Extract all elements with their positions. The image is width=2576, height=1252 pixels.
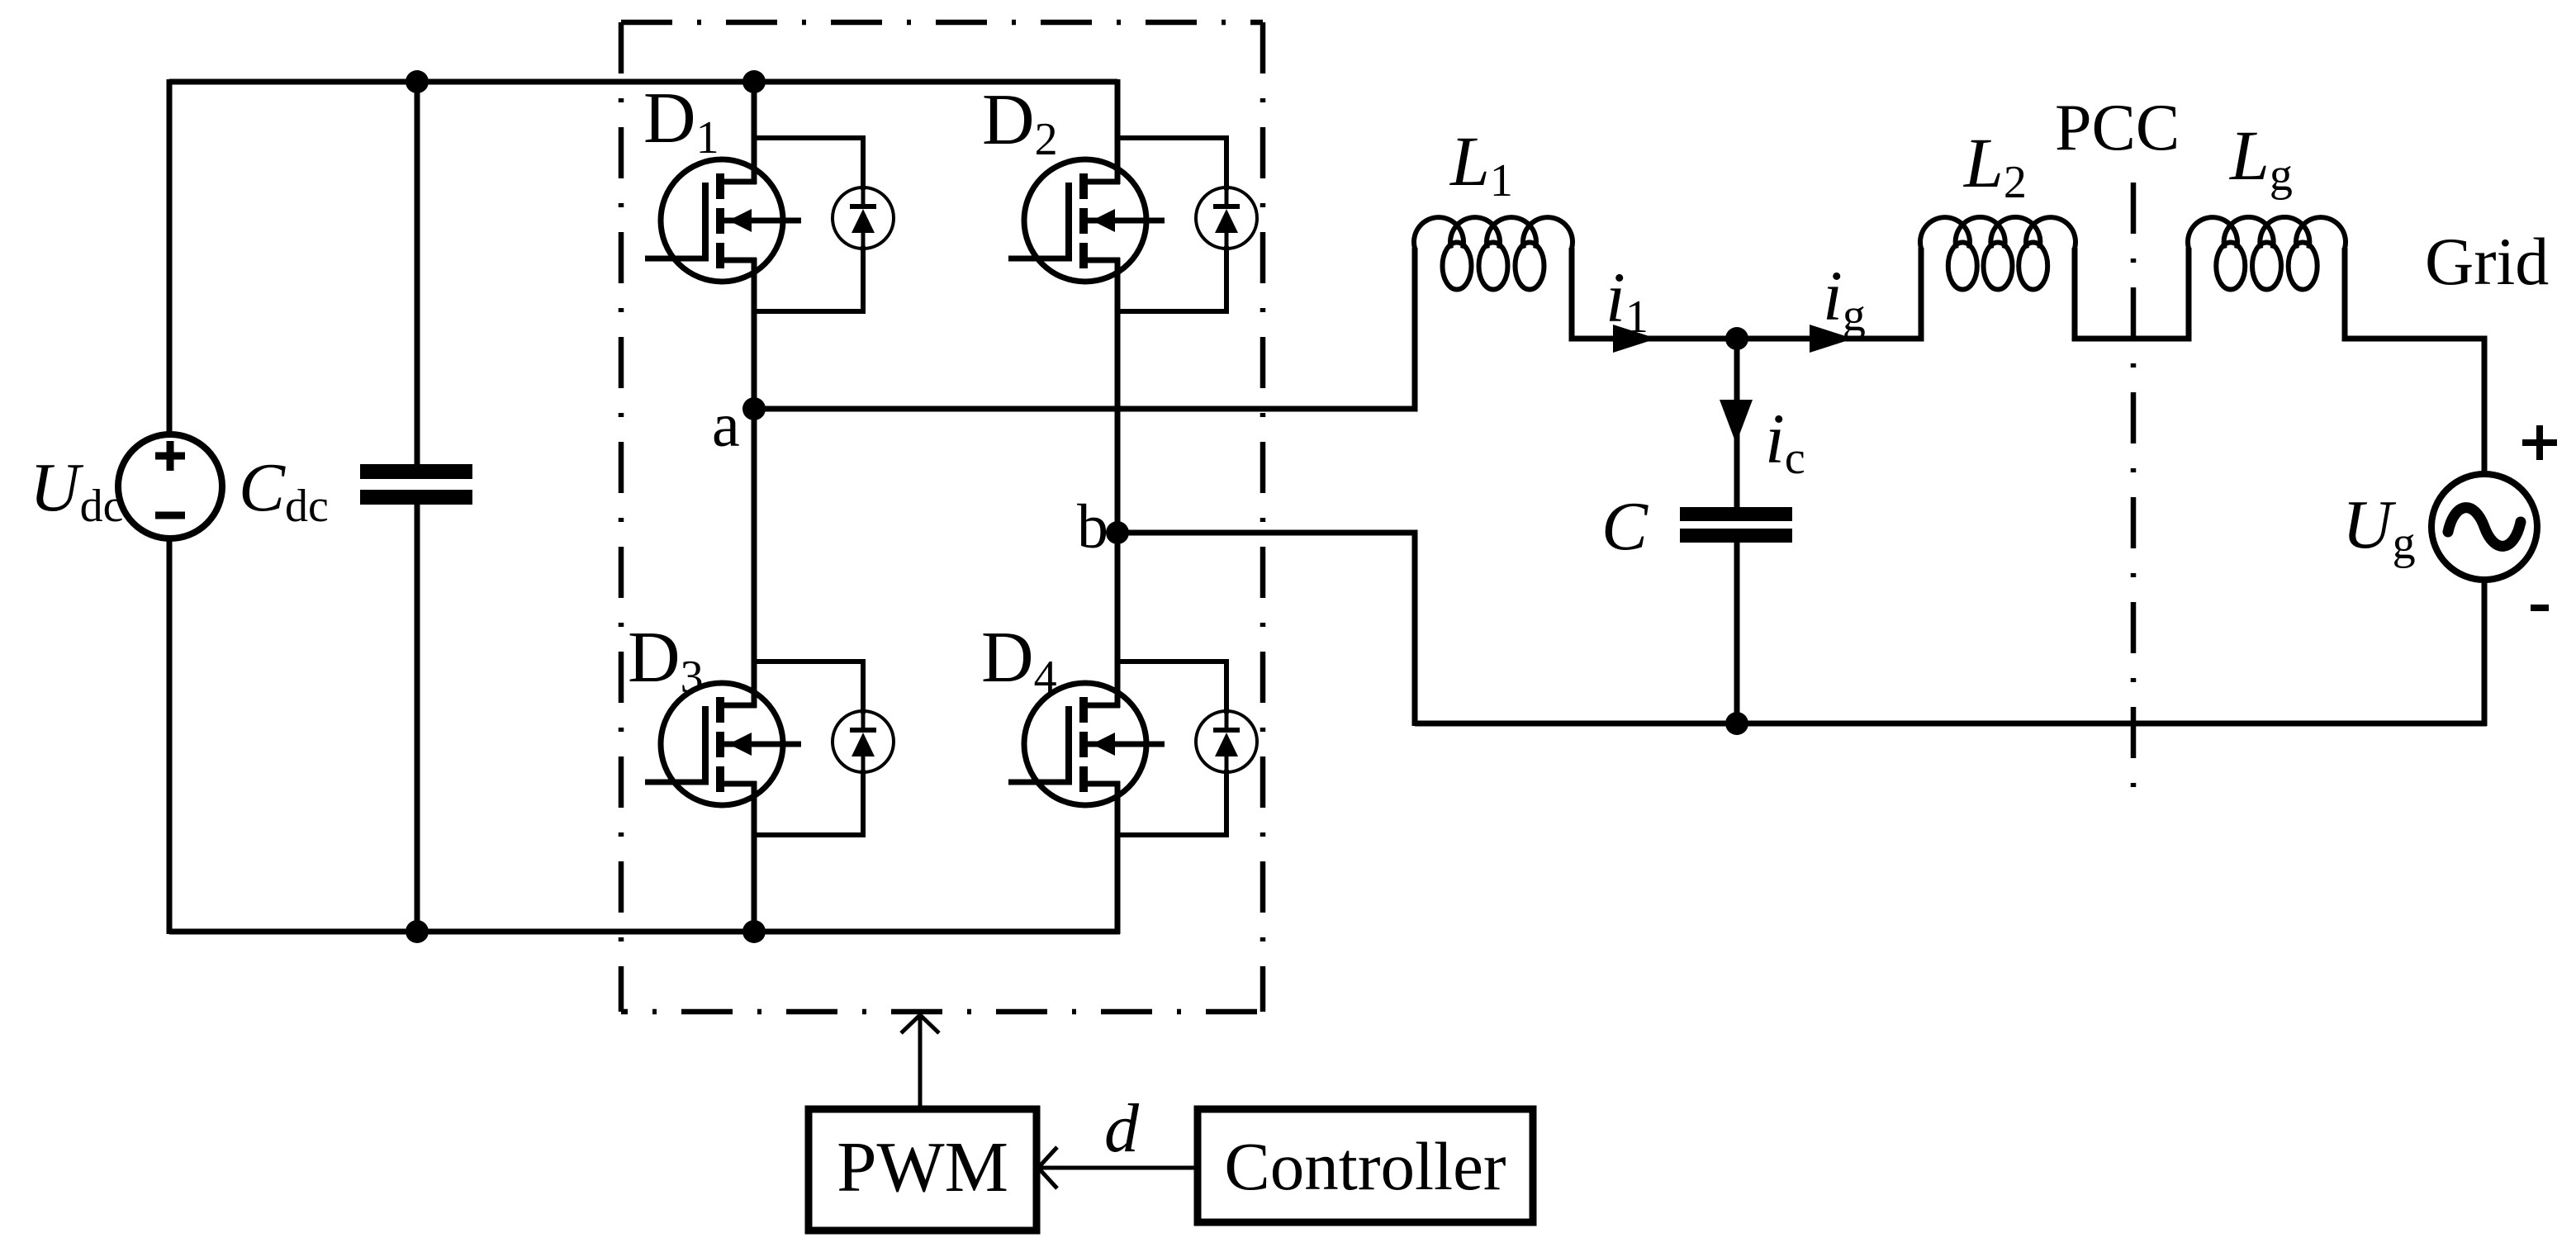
wire: grid source to bottom AC rail — [2482, 577, 2488, 726]
wire: node a to L1 — [754, 248, 1415, 409]
node b — [1106, 521, 1129, 544]
wire: L2 to Lg across PCC — [2075, 248, 2189, 339]
junction dot: top rail / C_dc — [406, 70, 429, 93]
Controller box — [1198, 1109, 1533, 1222]
wire: top rail corner to D2 drain — [1115, 79, 1121, 184]
wire: node a to D3 drain — [752, 406, 757, 708]
wire: node b to D4 drain — [1115, 530, 1121, 708]
wire: top DC rail — [169, 79, 1117, 85]
signal d: controller to PWM — [1038, 1147, 1198, 1188]
junction dot: bottom rail / C_dc — [406, 920, 429, 943]
inductor L1 — [1414, 217, 1573, 249]
wire: D2 source to node b — [1115, 258, 1121, 535]
capacitor C_dc — [360, 82, 472, 932]
wire: Lg to grid source — [2345, 248, 2484, 477]
junction dot: cap bottom / AC rail — [1725, 712, 1748, 735]
wire: node b to AC rail — [1117, 533, 1415, 726]
PCC dash-dot line — [2131, 183, 2137, 799]
svg-text:a: a — [712, 391, 740, 460]
svg-text:C: C — [1601, 488, 1649, 565]
wire: filter node to L2 — [1737, 248, 1921, 339]
wire: left DC leg (top segment) — [167, 79, 173, 434]
svg-text:PWM: PWM — [837, 1126, 1008, 1207]
node a — [742, 397, 766, 420]
junction dot: bottom rail / bridge left leg — [742, 920, 766, 943]
junction dot: top rail / bridge left leg — [742, 70, 766, 93]
svg-text:d: d — [1104, 1090, 1140, 1167]
body diode of D3 — [754, 662, 894, 835]
inverter bridge dash-dot box — [621, 22, 1263, 1012]
capacitor C (filter) — [1680, 339, 1792, 723]
svg-text:Grid: Grid — [2425, 224, 2549, 299]
PWM box — [809, 1109, 1037, 1231]
wire: bottom DC rail — [169, 929, 1120, 935]
junction dot: filter node — [1725, 327, 1748, 350]
wire: bottom AC rail — [1415, 721, 2487, 727]
label - (grid polarity) — [2531, 605, 2549, 611]
inductor L2 — [1920, 217, 2076, 249]
svg-text:Controller: Controller — [1224, 1128, 1506, 1204]
wire: D1 source to node a — [752, 258, 757, 411]
transistor D3 (MOSFET) — [645, 683, 801, 805]
svg-text:b: b — [1077, 492, 1108, 562]
wire: L1 to filter node — [1572, 248, 1737, 339]
voltage source U_dc — [118, 434, 222, 538]
body diode of D4 — [1117, 662, 1257, 835]
arrow ig — [1810, 325, 1853, 353]
transistor D1 (MOSFET) — [645, 159, 801, 282]
transistor D2 (MOSFET) — [1008, 159, 1165, 282]
label + (grid polarity) — [2522, 425, 2557, 460]
AC source U_g — [2431, 474, 2537, 580]
wire: left DC leg (bottom segment) — [167, 538, 173, 934]
arrow: PWM output to bridge — [901, 1015, 939, 1109]
arrow ic — [1720, 400, 1753, 443]
body diode of D1 — [754, 138, 894, 311]
wire: top rail to D1 drain — [752, 82, 757, 184]
wire: D3 source to bottom rail — [752, 781, 757, 932]
arrow i1 — [1613, 325, 1657, 353]
svg-text:PCC: PCC — [2055, 92, 2180, 164]
transistor D4 (MOSFET) — [1008, 683, 1165, 805]
inductor Lg — [2188, 217, 2346, 249]
body diode of D2 — [1117, 138, 1257, 311]
wire: D4 source to bottom rail — [1115, 781, 1121, 934]
